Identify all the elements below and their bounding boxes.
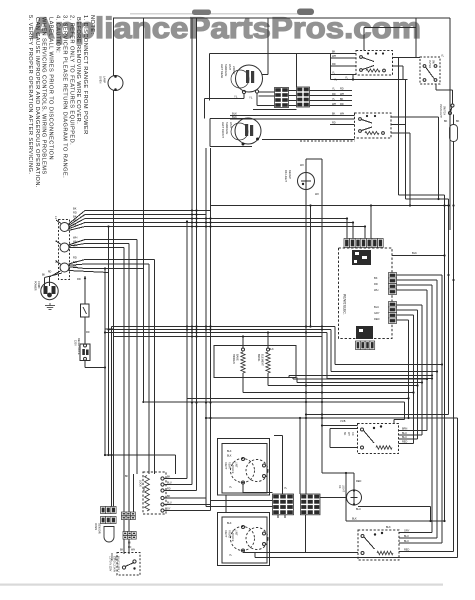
wire xyxy=(452,90,454,104)
wire xyxy=(175,455,177,474)
wire xyxy=(352,223,354,239)
junction xyxy=(110,454,112,456)
burner inner ring xyxy=(231,70,249,88)
wire xyxy=(289,375,432,377)
connector switch block B xyxy=(301,494,321,515)
junction xyxy=(195,221,197,223)
burner LEFT FRONT SURFACE UNIT xyxy=(235,118,261,144)
wire xyxy=(322,425,358,427)
terminal block outline xyxy=(59,220,70,280)
svg-text:ELEMENT: ELEMENT xyxy=(261,354,264,366)
wire xyxy=(284,515,286,519)
junction xyxy=(309,204,311,206)
wire xyxy=(421,305,423,435)
burner inner ring xyxy=(231,123,248,140)
connector board right upper xyxy=(389,273,397,295)
wire xyxy=(329,429,331,448)
lamp OVEN LAMP DK1 xyxy=(108,76,123,91)
wire YL xyxy=(331,79,408,81)
transformer cluster xyxy=(352,250,371,265)
switch box LEFT REAR INF SW xyxy=(356,51,393,76)
wire xyxy=(128,244,130,555)
switch DK LIGHT RECEPTACLE xyxy=(298,173,315,190)
wire xyxy=(352,75,354,80)
switch contact xyxy=(360,69,363,72)
svg-text:LAMP: LAMP xyxy=(103,76,107,83)
svg-text:GRY: GRY xyxy=(404,530,410,533)
lamp filament xyxy=(351,497,358,499)
wire xyxy=(56,220,61,224)
wire xyxy=(56,261,61,265)
junction xyxy=(209,217,211,219)
svg-text:2400W: 2400W xyxy=(232,66,236,75)
wire xyxy=(335,364,442,366)
svg-text:BK: BK xyxy=(332,51,336,54)
wire xyxy=(204,99,206,119)
switch box DOOR LOCK xyxy=(143,472,166,514)
svg-text:BLU: BLU xyxy=(404,540,409,543)
svg-text:RD: RD xyxy=(332,63,336,66)
ground xyxy=(45,303,55,310)
junction xyxy=(429,520,431,522)
wire xyxy=(399,430,428,432)
junction xyxy=(412,391,414,393)
wire xyxy=(289,105,297,107)
wire xyxy=(242,337,244,349)
wire xyxy=(84,317,86,344)
wire xyxy=(397,274,443,276)
wire xyxy=(399,194,445,196)
junction xyxy=(447,204,449,206)
wire xyxy=(85,268,144,270)
connector board top strip xyxy=(344,239,383,248)
wire xyxy=(209,119,211,147)
wire xyxy=(164,490,197,492)
terminal xyxy=(263,543,266,546)
svg-text:UNIT: UNIT xyxy=(229,122,233,128)
svg-text:BK: BK xyxy=(120,549,124,552)
switch contact xyxy=(423,79,426,82)
wire xyxy=(211,205,451,207)
wire xyxy=(164,510,211,512)
switch contact xyxy=(361,446,364,449)
wire xyxy=(69,271,109,273)
wire xyxy=(254,552,256,558)
junction xyxy=(374,533,376,535)
svg-text:CORD: CORD xyxy=(37,281,40,289)
terminal xyxy=(263,464,266,467)
wire xyxy=(330,65,356,67)
wire xyxy=(186,222,188,479)
wire xyxy=(253,109,297,111)
junction xyxy=(104,366,106,368)
wire xyxy=(69,227,86,231)
svg-text:OUTER: OUTER xyxy=(428,60,430,68)
power cord plug xyxy=(41,282,58,299)
wire xyxy=(416,57,420,59)
switch contact xyxy=(434,65,437,68)
junction xyxy=(107,225,109,227)
wire xyxy=(69,246,86,248)
wire xyxy=(123,248,125,555)
coil xyxy=(377,551,393,555)
junction xyxy=(352,221,354,223)
wire xyxy=(133,474,135,512)
junction xyxy=(352,78,354,80)
junction xyxy=(107,454,109,456)
junction xyxy=(431,377,433,379)
wire xyxy=(243,552,358,554)
svg-text:WH: WH xyxy=(131,549,135,552)
switch blade xyxy=(362,127,373,131)
svg-text:L1 TO N 120V: L1 TO N 120V xyxy=(109,556,112,572)
connector sensor plug xyxy=(101,507,117,514)
fuse mark xyxy=(83,307,87,314)
svg-text:LIGHT: LIGHT xyxy=(342,485,345,493)
connector board bottom strip xyxy=(356,341,375,350)
switch contact xyxy=(161,509,164,512)
svg-text:WH: WH xyxy=(347,432,350,436)
switch contact xyxy=(122,566,125,569)
svg-text:BK: BK xyxy=(73,207,77,211)
svg-text:BLK: BLK xyxy=(227,455,232,458)
svg-text:WH: WH xyxy=(374,288,378,292)
wire xyxy=(310,100,353,102)
junction xyxy=(437,198,439,200)
wire dashed xyxy=(300,140,355,142)
junction xyxy=(209,221,211,223)
junction xyxy=(133,567,135,569)
junction xyxy=(381,532,383,534)
wire xyxy=(306,414,449,416)
svg-text:POWER: POWER xyxy=(34,281,37,291)
svg-text:BLU: BLU xyxy=(402,436,407,439)
burner RIGHT REAR SURFACE UNIT xyxy=(231,459,255,483)
switch contact xyxy=(161,503,164,506)
svg-text:SURFACE: SURFACE xyxy=(231,462,234,474)
wire xyxy=(364,227,366,239)
wire xyxy=(164,478,187,480)
svg-text:WH: WH xyxy=(73,244,77,248)
element HIDDEN BAKE xyxy=(241,352,245,373)
junction xyxy=(114,75,117,78)
wire xyxy=(391,132,410,134)
junction xyxy=(447,274,449,276)
wire xyxy=(397,284,433,286)
junction xyxy=(191,331,193,333)
wire xyxy=(330,124,355,126)
wire xyxy=(436,280,438,538)
wire xyxy=(69,264,86,265)
junction xyxy=(191,221,193,223)
wire xyxy=(293,378,427,380)
switch contact xyxy=(359,118,362,121)
wire xyxy=(262,139,355,141)
svg-text:YL: YL xyxy=(249,96,253,100)
wire xyxy=(225,495,227,513)
junction xyxy=(205,401,207,403)
svg-text:RD: RD xyxy=(77,277,81,281)
terminal xyxy=(263,475,266,478)
switch contact xyxy=(449,112,452,115)
wire xyxy=(111,327,113,507)
junction xyxy=(367,52,369,54)
wire xyxy=(345,473,347,521)
junction xyxy=(305,401,307,403)
svg-text:BLU: BLU xyxy=(356,508,361,511)
wire xyxy=(453,142,455,552)
junction xyxy=(205,325,207,327)
junction xyxy=(321,384,323,386)
wire xyxy=(457,418,459,558)
wire xyxy=(85,247,124,249)
wire right frame xyxy=(449,18,451,230)
wire xyxy=(85,210,211,212)
wire xyxy=(305,515,307,553)
wire xyxy=(444,195,446,521)
wire xyxy=(402,66,404,80)
svg-text:W1/W2 ELEC.: W1/W2 ELEC. xyxy=(343,294,347,315)
junction xyxy=(195,335,197,337)
svg-text:SW: SW xyxy=(142,487,145,492)
svg-text:RD: RD xyxy=(374,282,378,286)
junction xyxy=(195,209,197,211)
junction xyxy=(209,401,211,403)
wire xyxy=(297,382,422,384)
wire xyxy=(85,226,365,228)
wire xyxy=(305,159,307,494)
junction xyxy=(205,221,207,223)
svg-text:RD: RD xyxy=(167,488,171,491)
wire xyxy=(441,275,443,543)
svg-text:GY: GY xyxy=(167,508,171,511)
wire xyxy=(243,492,273,494)
connector xyxy=(123,536,136,540)
switch contact xyxy=(161,489,164,492)
wire xyxy=(406,198,449,200)
wire xyxy=(296,378,298,383)
wire xyxy=(49,271,60,277)
svg-text:OVEN LIGHT: OVEN LIGHT xyxy=(439,104,441,119)
wire xyxy=(399,434,423,436)
switch contact xyxy=(161,496,164,499)
junction xyxy=(195,331,197,333)
wire xyxy=(289,100,297,102)
wire xyxy=(104,454,176,456)
wire xyxy=(399,537,437,539)
wire xyxy=(210,53,357,55)
wire xyxy=(415,18,417,58)
wire xyxy=(85,222,353,224)
switch blade xyxy=(363,66,375,70)
wire xyxy=(398,58,400,196)
wire xyxy=(353,473,355,505)
svg-text:RD: RD xyxy=(351,432,354,436)
plug ground pin xyxy=(48,293,52,297)
wire xyxy=(364,27,416,29)
switch box OUTER-INNER xyxy=(420,57,440,84)
wire xyxy=(397,279,438,281)
terminal L2 xyxy=(60,263,69,272)
wire BLK xyxy=(230,115,355,117)
junction xyxy=(205,225,207,227)
junction xyxy=(209,417,211,419)
junction xyxy=(373,427,375,429)
wire xyxy=(69,267,86,269)
wire xyxy=(397,304,423,306)
terminal xyxy=(242,549,245,552)
wire xyxy=(453,115,455,125)
wire xyxy=(435,84,437,90)
svg-text:OVEN: OVEN xyxy=(99,76,103,83)
junction xyxy=(452,279,454,281)
svg-text:V1/B: V1/B xyxy=(340,420,346,423)
junction xyxy=(267,331,269,333)
junction xyxy=(195,213,197,215)
junction xyxy=(186,220,188,222)
connector sensor plug2 xyxy=(101,517,117,524)
switch contact xyxy=(360,56,363,59)
junction xyxy=(346,217,348,219)
wire xyxy=(346,219,348,239)
wire xyxy=(210,148,212,511)
wire xyxy=(85,214,206,216)
wire xyxy=(326,333,328,379)
wire xyxy=(114,336,323,338)
switch contact xyxy=(382,132,385,135)
switch contact xyxy=(161,477,164,480)
svg-text:120V: 120V xyxy=(74,340,77,346)
wire xyxy=(289,95,297,97)
svg-text:L1 TO L2 240V: L1 TO L2 240V xyxy=(113,556,116,573)
junction xyxy=(205,328,207,330)
wire xyxy=(391,116,439,118)
svg-text:RD: RD xyxy=(73,211,77,215)
wire xyxy=(143,18,145,403)
svg-text:RD: RD xyxy=(48,272,52,274)
wire xyxy=(85,218,347,220)
receptacle 120V xyxy=(80,344,90,361)
junction xyxy=(305,384,307,386)
svg-text:HIDDEN: HIDDEN xyxy=(232,354,235,364)
wire xyxy=(393,57,421,59)
terminal L1 xyxy=(60,223,69,232)
svg-text:BK: BK xyxy=(73,223,77,227)
wire xyxy=(164,484,192,486)
wire xyxy=(196,18,198,491)
svg-text:LEFT FRONT: LEFT FRONT xyxy=(221,122,225,138)
wire left frame lower xyxy=(113,91,115,507)
wire xyxy=(330,330,332,372)
wire BLK xyxy=(230,118,355,120)
fuse F1 xyxy=(81,304,90,317)
connector board right lower xyxy=(389,302,397,324)
box bake-broil elements xyxy=(214,346,296,378)
junction xyxy=(366,115,368,117)
svg-text:W2: W2 xyxy=(315,193,319,196)
junction xyxy=(321,417,323,419)
switch contact xyxy=(361,535,364,538)
box RIGHT REAR SURFACE UNIT outer xyxy=(218,439,270,496)
junction xyxy=(302,183,304,185)
wire xyxy=(397,289,428,291)
switch box DOOR SWITCH xyxy=(117,553,140,576)
wire xyxy=(289,90,297,92)
svg-text:RD: RD xyxy=(340,103,344,106)
junction xyxy=(209,225,211,227)
svg-text:BK: BK xyxy=(167,495,171,498)
terminal xyxy=(255,90,258,93)
connector xyxy=(123,532,136,536)
wire xyxy=(257,105,275,107)
svg-text:BK: BK xyxy=(444,120,448,123)
wire xyxy=(397,319,409,321)
wire xyxy=(310,95,353,97)
junction xyxy=(195,217,197,219)
wire xyxy=(267,333,269,349)
junction xyxy=(409,204,411,206)
junction xyxy=(309,325,311,327)
junction xyxy=(242,143,245,146)
wire xyxy=(104,269,106,456)
wire xyxy=(413,315,415,444)
wire xyxy=(334,327,336,365)
wire xyxy=(408,320,410,418)
wire xyxy=(438,117,440,199)
wire xyxy=(282,436,284,495)
wire xyxy=(330,57,356,59)
wire xyxy=(268,385,418,387)
connector plug P1 xyxy=(275,88,289,108)
junction xyxy=(382,52,384,54)
svg-text:OVEN: OVEN xyxy=(94,523,97,530)
junction xyxy=(380,425,382,427)
junction xyxy=(321,401,323,403)
wire xyxy=(148,264,150,474)
svg-text:BLK: BLK xyxy=(386,526,391,529)
svg-text:SURFACE: SURFACE xyxy=(231,530,234,542)
junction xyxy=(421,381,423,383)
junction xyxy=(191,213,193,215)
wire xyxy=(306,158,322,160)
wire xyxy=(310,206,312,327)
wire xyxy=(84,276,86,304)
wire xyxy=(85,259,155,261)
wire xyxy=(242,484,244,493)
wire xyxy=(255,557,458,559)
wire xyxy=(191,18,193,485)
junction xyxy=(321,391,323,393)
wire xyxy=(85,243,129,245)
svg-text:BK: BK xyxy=(125,476,129,478)
switch contact xyxy=(451,104,454,107)
svg-text:GRY: GRY xyxy=(374,311,380,315)
svg-text:WH: WH xyxy=(332,55,336,58)
wire xyxy=(210,146,252,148)
wire xyxy=(267,18,269,75)
wire xyxy=(211,500,273,502)
svg-text:RECEP: RECEP xyxy=(288,170,292,179)
junction xyxy=(84,277,86,279)
wire xyxy=(404,402,406,420)
wire xyxy=(436,89,453,91)
thermal capsule xyxy=(450,125,458,142)
switch contact xyxy=(361,428,364,431)
terminal xyxy=(242,348,245,351)
relay cluster xyxy=(356,326,373,339)
svg-text:WH: WH xyxy=(340,93,344,96)
svg-text:BLU: BLU xyxy=(167,502,172,505)
